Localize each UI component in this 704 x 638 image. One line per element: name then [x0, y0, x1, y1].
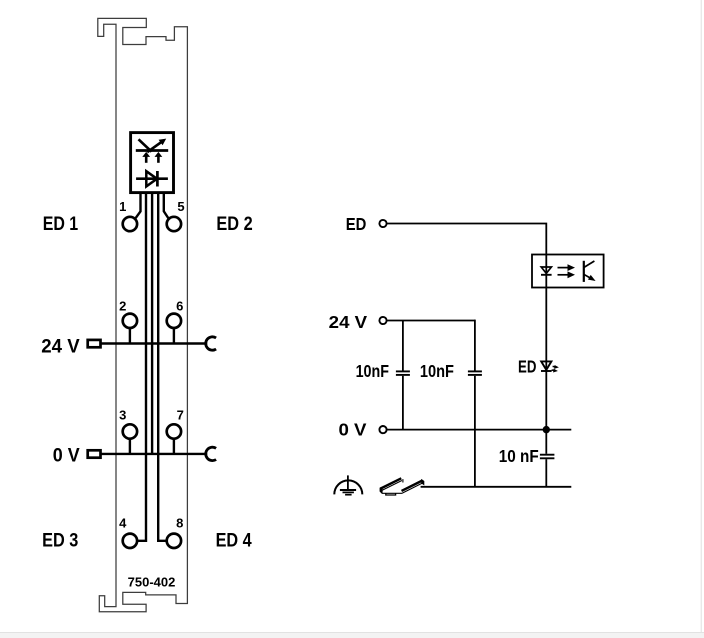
- svg-text:6: 6: [176, 299, 183, 314]
- stub terminal3 to 0V rail: [129, 439, 131, 454]
- wire 0V rail right: [387, 429, 571, 431]
- opto-coupler box U2: [532, 255, 604, 288]
- U1 top symbol: bar: [136, 149, 168, 152]
- wire bus line to terminal 8: [158, 194, 166, 541]
- capacitor C1 top lead: [402, 321, 404, 371]
- terminal circle 3: [123, 424, 137, 438]
- 0V rail: [101, 453, 208, 455]
- junction node 0V/LED: [543, 426, 550, 433]
- svg-text:ED 1: ED 1: [43, 213, 79, 235]
- wire opto-coupler to LED: [545, 288, 547, 372]
- svg-text:24 V: 24 V: [41, 336, 79, 358]
- capacitor C1 plates: [396, 370, 410, 372]
- ED input terminal: [379, 220, 386, 227]
- svg-text:8: 8: [176, 515, 183, 530]
- svg-text:ED 4: ED 4: [216, 530, 252, 552]
- wire 24V rail right: [387, 320, 475, 322]
- svg-text:3: 3: [119, 407, 126, 422]
- terminal circle 5: [167, 217, 181, 231]
- terminal circle 7: [167, 424, 181, 438]
- svg-text:750-402: 750-402: [128, 575, 176, 590]
- svg-text:2: 2: [119, 299, 126, 314]
- U1 diode D1: triangle: [146, 171, 157, 186]
- terminal circle 6: [167, 314, 181, 328]
- svg-text:5: 5: [177, 199, 184, 214]
- svg-text:ED: ED: [518, 356, 536, 376]
- svg-text:0 V: 0 V: [339, 420, 367, 440]
- wire bus line to terminal 4: [137, 194, 146, 541]
- terminal circle 2: [123, 314, 137, 328]
- svg-text:1: 1: [119, 199, 126, 214]
- 24V rail square connector: [88, 340, 101, 347]
- U2 LED cathode bar: [541, 274, 552, 276]
- earth line: [421, 486, 572, 488]
- capacitor C1 bottom lead: [402, 376, 404, 430]
- status LED D2 cathode bar: [541, 370, 552, 372]
- U1 top symbol: outgoing arrow: [147, 141, 162, 152]
- U2 LED: wire in: [545, 255, 547, 288]
- U2 coupling arrow top: [558, 267, 570, 269]
- U2 phototransistor collector: [584, 261, 595, 268]
- status LED D2 triangle: [541, 361, 551, 370]
- U1 top symbol: incoming diagonal: [139, 139, 152, 151]
- svg-text:10nF: 10nF: [356, 361, 390, 381]
- 0V terminal: [379, 426, 386, 433]
- wire pin5 from U1 to terminal 5: [164, 194, 169, 219]
- svg-text:0 V: 0 V: [53, 444, 80, 466]
- terminal circle 8: [167, 534, 181, 548]
- module outline (750-402 housing contour): [98, 18, 188, 611]
- svg-text:7: 7: [177, 407, 184, 422]
- U1 diode D1: line: [136, 177, 168, 180]
- U2 coupling arrow bottom: [558, 274, 570, 276]
- svg-text:ED 3: ED 3: [42, 530, 78, 552]
- wire bus line to 0V rail: [151, 194, 153, 454]
- wire ED to opto-coupler: [387, 224, 546, 255]
- svg-text:10nF: 10nF: [420, 361, 454, 381]
- footer divider band: [0, 632, 704, 638]
- capacitor C2 bottom lead to earth line: [474, 376, 476, 487]
- 0V rail square connector: [88, 450, 101, 457]
- svg-text:ED: ED: [346, 214, 367, 234]
- 24V rail: [101, 342, 208, 344]
- capacitor C3 plates: [540, 454, 555, 456]
- U2 phototransistor bar: [583, 261, 585, 282]
- opto-coupler box U1: [131, 133, 174, 193]
- capacitor C3 bottom lead: [545, 459, 547, 487]
- DIN rail symbol: [380, 478, 424, 495]
- 24V terminal: [379, 317, 386, 324]
- svg-text:ED 2: ED 2: [216, 213, 252, 235]
- svg-text:10 nF: 10 nF: [499, 446, 539, 466]
- capacitor C3 top lead: [545, 430, 547, 454]
- status LED D2 light arrows: [553, 365, 556, 368]
- stub terminal7 to 0V rail: [173, 439, 175, 454]
- wire status LED to 0V node: [545, 371, 547, 430]
- U1 diode D1: cathode bar: [156, 171, 159, 187]
- stub terminal2 to 24V rail: [129, 329, 131, 344]
- protective earth symbol: [334, 475, 362, 494]
- svg-text:4: 4: [119, 515, 127, 530]
- 24V rail fork connector: [206, 337, 216, 350]
- U2 LED triangle: [541, 267, 551, 273]
- svg-text:24 V: 24 V: [329, 312, 368, 332]
- U1 top symbol: up-arrow right: [157, 156, 160, 163]
- U1 top symbol: up-arrow left: [145, 156, 148, 163]
- terminal circle 1: [123, 217, 137, 231]
- U2 phototransistor emitter: [584, 274, 592, 279]
- stub terminal6 to 24V rail: [173, 329, 175, 344]
- terminal circle 4: [123, 534, 137, 548]
- wire pin1 from U1 to terminal 1: [135, 194, 141, 219]
- 0V rail fork connector: [206, 447, 216, 460]
- capacitor C2 top lead: [474, 320, 476, 371]
- capacitor C2 plates: [468, 370, 482, 372]
